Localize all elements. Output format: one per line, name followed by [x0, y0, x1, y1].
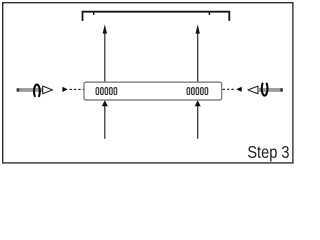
left screw clip ring	[34, 85, 40, 96]
support arrow bottom-right (pointing up into rail)	[195, 100, 201, 139]
up arrow left (rail to bracket)	[103, 24, 107, 81]
left screw shaft	[17, 88, 43, 92]
left screw tip cone	[43, 86, 53, 94]
figure border frame	[3, 3, 293, 163]
slotted rail bar	[84, 82, 222, 100]
bracket hook tab left	[93, 12, 95, 15]
up arrow right (rail to bracket)	[196, 24, 200, 81]
left insertion arrow	[62, 87, 83, 92]
right screw shaft	[258, 88, 283, 92]
Step 3 label	[247, 143, 289, 163]
svg-text:Step 3: Step 3	[247, 143, 289, 163]
rail slots left group	[96, 88, 117, 95]
right screw tip cone	[248, 86, 258, 94]
rail slots right group	[187, 88, 208, 95]
support arrow bottom-left (pointing up into rail)	[102, 100, 108, 139]
wall bracket rail (top)	[83, 12, 230, 21]
right insertion arrow	[223, 87, 242, 92]
right screw clip ring	[262, 84, 268, 96]
bracket hook tab right	[208, 12, 210, 15]
